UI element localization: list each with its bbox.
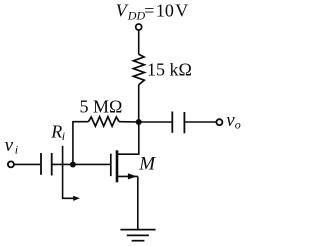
svg-text:5 MΩ: 5 MΩ (80, 97, 123, 117)
svg-text:V: V (175, 1, 188, 21)
svg-text:i: i (62, 129, 65, 143)
svg-text:i: i (15, 143, 18, 157)
svg-text:=: = (144, 1, 154, 21)
svg-text:R: R (50, 122, 62, 142)
svg-text:o: o (235, 117, 241, 131)
svg-text:v: v (5, 135, 14, 156)
svg-text:M: M (138, 154, 156, 175)
svg-text:DD: DD (127, 8, 146, 22)
svg-text:15 kΩ: 15 kΩ (147, 59, 192, 79)
svg-text:10: 10 (156, 1, 174, 21)
